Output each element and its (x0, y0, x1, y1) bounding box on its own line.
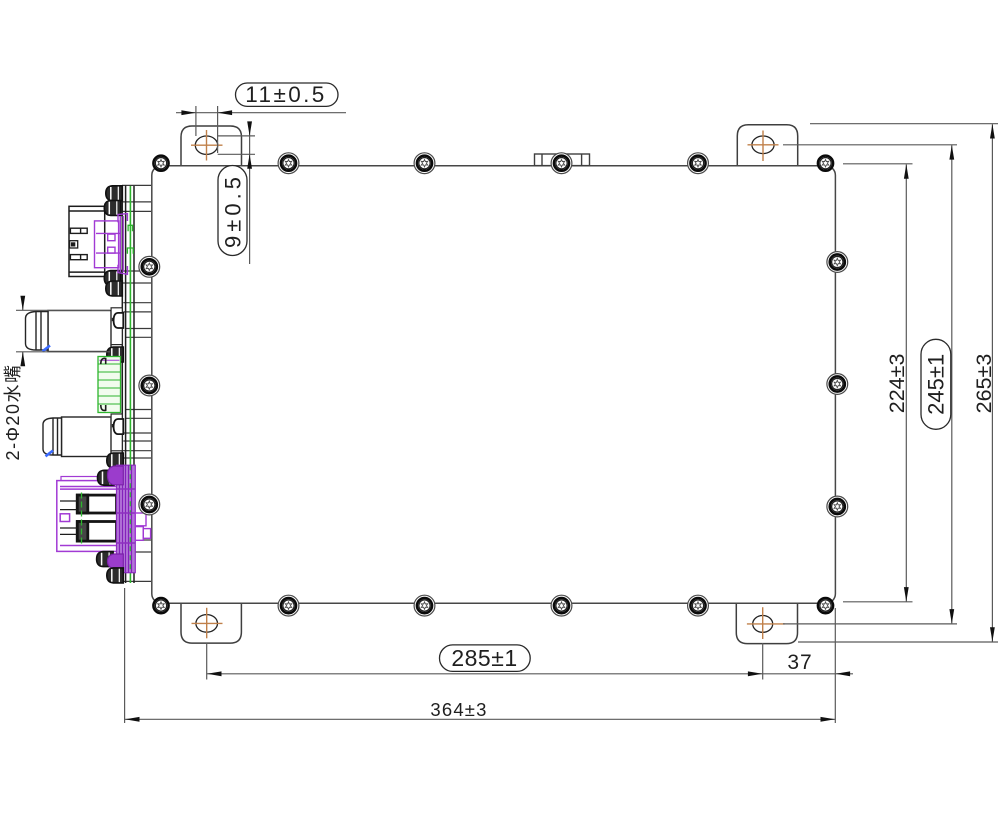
dimension 2-Φ20 left (16, 296, 110, 366)
svg-text:364±3: 364±3 (430, 699, 487, 720)
LV green clips (127, 225, 133, 254)
HV cap bottom black 2 (107, 568, 124, 583)
HV pipe right upper (135, 513, 146, 526)
torx screw L1 (142, 259, 157, 274)
LV prong 2 (70, 255, 87, 260)
nozzle 2 blue mark (46, 451, 54, 457)
HV cap top black (98, 470, 115, 485)
LV cap bottom inner (104, 271, 121, 286)
LV cap bottom outer (106, 281, 123, 296)
torx screw T1 (153, 156, 168, 171)
nozzle 1 bottom cap (107, 347, 124, 362)
dimension 245±1 right (783, 145, 957, 624)
torx screw B5 (690, 598, 705, 613)
tab hole top-right (748, 131, 779, 162)
HV green line (81, 493, 83, 544)
svg-text:2-Φ20水嘴: 2-Φ20水嘴 (3, 364, 23, 461)
dimension 37 bottom right (835, 608, 853, 723)
balloon 11±0.5 (236, 83, 339, 106)
nozzle 1 blue mark (43, 346, 51, 352)
torx screw T6 (818, 156, 833, 171)
svg-text:9±0.5: 9±0.5 (221, 173, 246, 248)
torx screw B1 (153, 598, 168, 613)
dimension 9±0.5 (218, 127, 255, 264)
torx screw T4 (554, 156, 569, 171)
HV cap bottom purple (108, 554, 124, 568)
mounting tab top-right (737, 125, 797, 166)
HV connector shell (magenta) (57, 481, 118, 552)
tab hole top-left (191, 130, 223, 161)
balloon 245±1 (921, 339, 951, 429)
screw bosses (139, 153, 848, 616)
HV black rails (60, 501, 77, 534)
HV pipe right lower (135, 527, 150, 541)
HV connector purple lip (61, 477, 117, 481)
mounting tab bottom-right (736, 603, 797, 644)
HV cap bottom black (97, 552, 114, 567)
dimension 11±0.5 (176, 106, 346, 153)
torx screw R1 (830, 254, 845, 269)
LV cap top inner (104, 201, 121, 216)
balloon 285±1 (440, 645, 531, 672)
plate green line (129, 186, 131, 583)
dimension 224±3 right (843, 164, 913, 602)
LV purple overlay (95, 214, 128, 275)
green component (98, 357, 121, 413)
tab hole bottom-left (192, 608, 223, 639)
nozzle 2 flange (111, 414, 122, 451)
svg-text:224±3: 224±3 (885, 354, 909, 414)
torx screw R3 (830, 499, 845, 514)
bracket top center (535, 154, 590, 166)
dimension 265±3 right (798, 124, 998, 642)
LV connector shell (top, black) (69, 206, 105, 276)
torx screw T2 (281, 156, 296, 171)
torx screw B6 (818, 598, 833, 613)
torx screw B3 (417, 598, 432, 613)
torx screw B2 (281, 598, 296, 613)
mounting tab bottom-left (181, 603, 241, 643)
balloon 9±0.5 (218, 166, 247, 256)
svg-text:37: 37 (787, 651, 812, 674)
torx screw R2 (830, 376, 845, 391)
svg-text:265±3: 265±3 (972, 354, 996, 414)
torx screw T3 (417, 156, 432, 171)
connector plate vertical lines (122, 185, 134, 583)
svg-text:11±0.5: 11±0.5 (245, 82, 326, 107)
HV dense purple column (117, 465, 136, 573)
nozzle 1 clamp dome (112, 313, 124, 328)
dimension 364±3 bottom (125, 588, 836, 723)
nozzle 2 clamp dome (112, 419, 124, 434)
LV latch box (70, 241, 78, 248)
LV prong 1 (70, 228, 87, 233)
dimension 285±1 bottom (207, 643, 836, 680)
HV cap top purple (108, 466, 124, 485)
water nozzle 1 (26, 311, 112, 352)
torx screw L3 (142, 497, 157, 512)
mounting tab top-left (181, 126, 242, 166)
HV inner black block 2 (77, 522, 116, 542)
tab hole bottom-right (747, 607, 785, 639)
torx screw T5 (690, 156, 705, 171)
torx screw B4 (554, 598, 569, 613)
main body outline (152, 166, 836, 604)
torx screw L2 (142, 378, 157, 393)
water nozzle 2 (43, 417, 111, 457)
LV cap top outer (106, 186, 123, 201)
svg-text:285±1: 285±1 (451, 645, 517, 671)
nozzle 2 bottom cap (107, 453, 124, 468)
nozzle 1 flange (111, 308, 122, 345)
svg-text:245±1: 245±1 (924, 354, 949, 415)
plate cutout lines into body (122, 185, 151, 581)
HV inner black block 1 (77, 495, 116, 513)
